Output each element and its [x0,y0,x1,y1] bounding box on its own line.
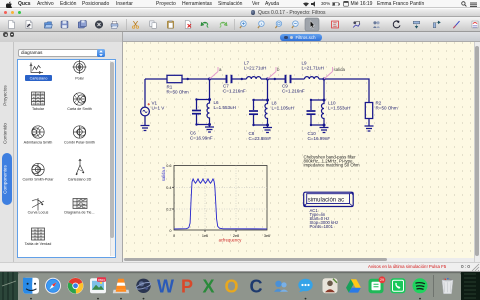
svg-text:L=1.553uH: L=1.553uH [328,105,350,110]
capacitor C10 [307,111,316,114]
Combi Smith-Polar icon [31,163,43,175]
svg-text:U=1 V: U=1 V [152,105,166,110]
separator [126,19,128,30]
svg-text:0.6: 0.6 [166,164,171,168]
Google Drive [346,279,361,292]
zoom out [292,21,298,28]
Excel [202,276,214,296]
node label salida [324,67,346,79]
junction shunt-salida bottom [310,123,326,126]
combo box "diagramas" [18,49,105,57]
print [111,21,118,28]
svg-text:Polar: Polar [75,77,84,81]
svg-text:3e6: 3e6 [264,234,270,238]
wire to C8 branch [254,100,268,110]
simulation box "simulación ac" [304,192,354,206]
wire salida to R2 column [324,79,369,103]
Tabla de Verdad icon [31,228,44,240]
mirror about y [433,21,440,28]
svg-text:impedance matching 50 Ohm: impedance matching 50 Ohm [304,162,361,167]
Tabular icon [31,92,44,105]
Finder [23,278,39,294]
save all [78,21,86,28]
capacitor C7 [227,74,232,82]
svg-text:C=23.88nF: C=23.88nF [249,135,272,140]
node label a [210,67,223,79]
separator [234,19,236,30]
Messages [298,279,312,293]
insert wire label [353,21,360,27]
zoom 1:1 [258,21,264,28]
svg-text:L=1.553uH: L=1.553uH [214,104,236,109]
wire R1 to node a [182,78,210,80]
cut scissors [132,21,138,28]
wire node a to C7 [210,78,227,80]
Office O [224,276,238,296]
ground at node a [205,127,214,132]
svg-text:Carta de Smith: Carta de Smith [67,107,92,111]
Diagrama de Tiempos icon [73,199,87,209]
svg-text:8823: 8823 [98,278,105,282]
capacitor C6 [192,110,201,113]
svg-text:Admitancia Smith: Admitancia Smith [23,141,52,145]
ground at node b [263,127,272,132]
wire to C6 branch [197,99,210,109]
mirror about x [413,21,420,28]
wire V1 bottom to ground [144,115,146,125]
svg-text:Combi Polar-Smith: Combi Polar-Smith [64,141,95,145]
inductor L9 [305,76,319,78]
insert wire (slash) [453,21,459,28]
wire C7 to L7 [232,78,247,80]
Carta de Smith icon [73,93,85,105]
svg-text:X: X [202,276,214,296]
label C9 [282,83,305,93]
Polar icon [72,60,86,74]
wire R2 to ground [368,118,370,126]
svg-text:0.2: 0.2 [166,207,171,211]
label C10 [308,131,331,141]
junction shunt-b bottom [252,123,269,126]
ground of R2 [365,126,374,131]
label C7 [223,83,246,93]
ground of V1 [141,125,150,130]
open folder [45,22,53,28]
label L9 [302,60,324,70]
svg-text:Cartesiano 3D: Cartesiano 3D [67,178,91,182]
green phone app [391,278,406,293]
svg-text:0: 0 [169,229,171,233]
junction shunt-salida top [310,98,326,101]
node label b [268,67,281,79]
list box [17,59,116,258]
capacitor C9 [286,74,291,82]
svg-text:Curva Locus: Curva Locus [27,211,48,215]
svg-text:salida.v: salida.v [161,165,166,180]
shunt resonator at salida: wire down [323,79,325,100]
Spotify [413,278,428,293]
response curve salida.v [174,178,267,228]
wire L9 to node salida [319,78,324,80]
wire node b to C9 [268,78,286,80]
label C6 [190,130,213,140]
people app [274,281,288,292]
zoom in [240,21,246,28]
svg-text:O: O [224,276,238,296]
green app with badge [369,276,386,293]
new text file [26,21,32,29]
label R2 [376,100,398,110]
shunt resonator at node b: wire down [267,79,269,100]
wire L7 to node b [261,78,268,80]
wire C10 bottom [311,115,324,125]
svg-text:29: 29 [380,278,384,282]
label R1 [167,84,189,94]
running dots [30,298,421,300]
svg-text:R=50 Ohm: R=50 Ohm [376,105,398,110]
wire C8 bottom [254,115,268,125]
comment text block [304,154,361,167]
svg-text:1e6: 1e6 [202,234,208,238]
close (x circle) [95,21,103,29]
capacitor C8 [249,111,258,114]
junction C9-L9 [274,77,276,79]
Combi Polar-Smith icon [73,126,85,138]
junction shunt-a bottom [195,123,211,126]
wire V1 top to main line [144,79,146,107]
junction C7-L7 [241,77,243,79]
resistor R2 [365,102,372,118]
label L6 [214,100,236,110]
svg-text:Cartesiano: Cartesiano [29,77,47,81]
node B junction [266,77,269,80]
svg-text:C=16.99nF: C=16.99nF [308,135,331,140]
wire C9 to L9 [291,78,305,80]
ground at salida [320,127,329,132]
copy [150,21,157,28]
shunt resonator at node a: wire down [209,79,211,100]
pressed select button [305,18,319,31]
wire C6 bottom [197,114,210,124]
Chrome [68,278,84,294]
wire L8 bottom to ground [267,125,269,128]
svg-text:C=1.216nF: C=1.216nF [282,88,305,93]
two figures icon [373,21,380,28]
svg-text:L=21.71uH: L=21.71uH [302,65,324,70]
paste clipboard [167,20,173,28]
junction shunt-b top [252,98,269,101]
svg-text:Tabular: Tabular [31,107,44,111]
svg-text:simulación ac: simulación ac [308,197,344,203]
svg-text:Combi Smith-Polar: Combi Smith-Polar [22,178,54,182]
Curva Locus icon [32,198,44,211]
svg-text:0.4: 0.4 [166,185,171,189]
label L8 [272,100,294,110]
svg-text:Diagrama de Tie...: Diagrama de Tie... [64,211,94,215]
svg-text:Points=1001: Points=1001 [310,224,334,229]
select pointer [310,21,314,29]
component labels [152,60,398,140]
Cartesiano icon [29,63,42,74]
svg-text:P: P [181,276,193,296]
dock separator [433,275,435,297]
svg-text:R=50 Ohm: R=50 Ohm [167,89,189,94]
undo (green arrow) [201,22,208,27]
window shadow on dock [18,272,461,273]
Admitancia Smith icon [31,126,43,138]
diagram tick labels [166,164,270,238]
person app [323,278,338,293]
node A junction [208,77,211,80]
svg-text:L=1.105uH: L=1.105uH [272,105,294,110]
Photos/Preview [90,277,106,293]
Trash [442,278,453,294]
VLC [113,279,129,294]
redo (light green arrow) [220,22,227,27]
label C8 [249,131,272,141]
planet app [136,279,152,293]
save floppy [61,21,68,28]
Safari [45,278,61,294]
wire name icon [472,21,478,28]
wire L10 bottom to ground [323,125,325,128]
svg-text:Tabla de Verdad: Tabla de Verdad [24,242,51,246]
inductor L8 [265,100,268,125]
junction shunt-a top [195,98,211,101]
Word [157,276,174,296]
rotate ccw (dark arc) [393,21,400,28]
voltage source V1 [141,103,150,116]
delete (page with red x) [185,21,191,29]
label L10 [328,100,350,110]
svg-text:0: 0 [173,234,175,238]
svg-text:C: C [250,276,263,296]
svg-text:W: W [157,276,174,296]
node salida junction [323,77,326,80]
label L7 [244,60,266,70]
wire to C10 branch [311,100,324,110]
simulation properties AC1 [310,207,339,228]
resistor R1 [167,75,182,82]
inductor L6 [207,99,210,124]
diagram grid lines [174,165,267,230]
insert equation (red frame) [332,21,339,28]
svg-text:salida: salida [334,67,346,72]
wire V1 to R1 [145,78,167,80]
svg-text:acfrequency: acfrequency [219,237,243,242]
new file [8,21,14,29]
cartesian diagram frame [172,165,267,232]
inductor L10 [322,100,325,125]
junction R1-wire [187,77,189,79]
C app [250,276,263,296]
selection highlight [25,75,52,81]
zoom fit [275,21,281,28]
inductor L7 [247,76,261,78]
svg-text:C=16.99nF: C=16.99nF [190,135,213,140]
svg-text:L=21.71uH: L=21.71uH [244,65,266,70]
label V1 [152,100,166,110]
PowerPoint [181,276,193,296]
list scrollbar [110,61,116,256]
dock panel [18,272,461,300]
wallpaper left [0,272,480,300]
Cartesiano 3D icon [76,159,84,175]
wire L6 bottom to ground [209,124,211,127]
svg-text:C=1.216nF: C=1.216nF [223,88,246,93]
